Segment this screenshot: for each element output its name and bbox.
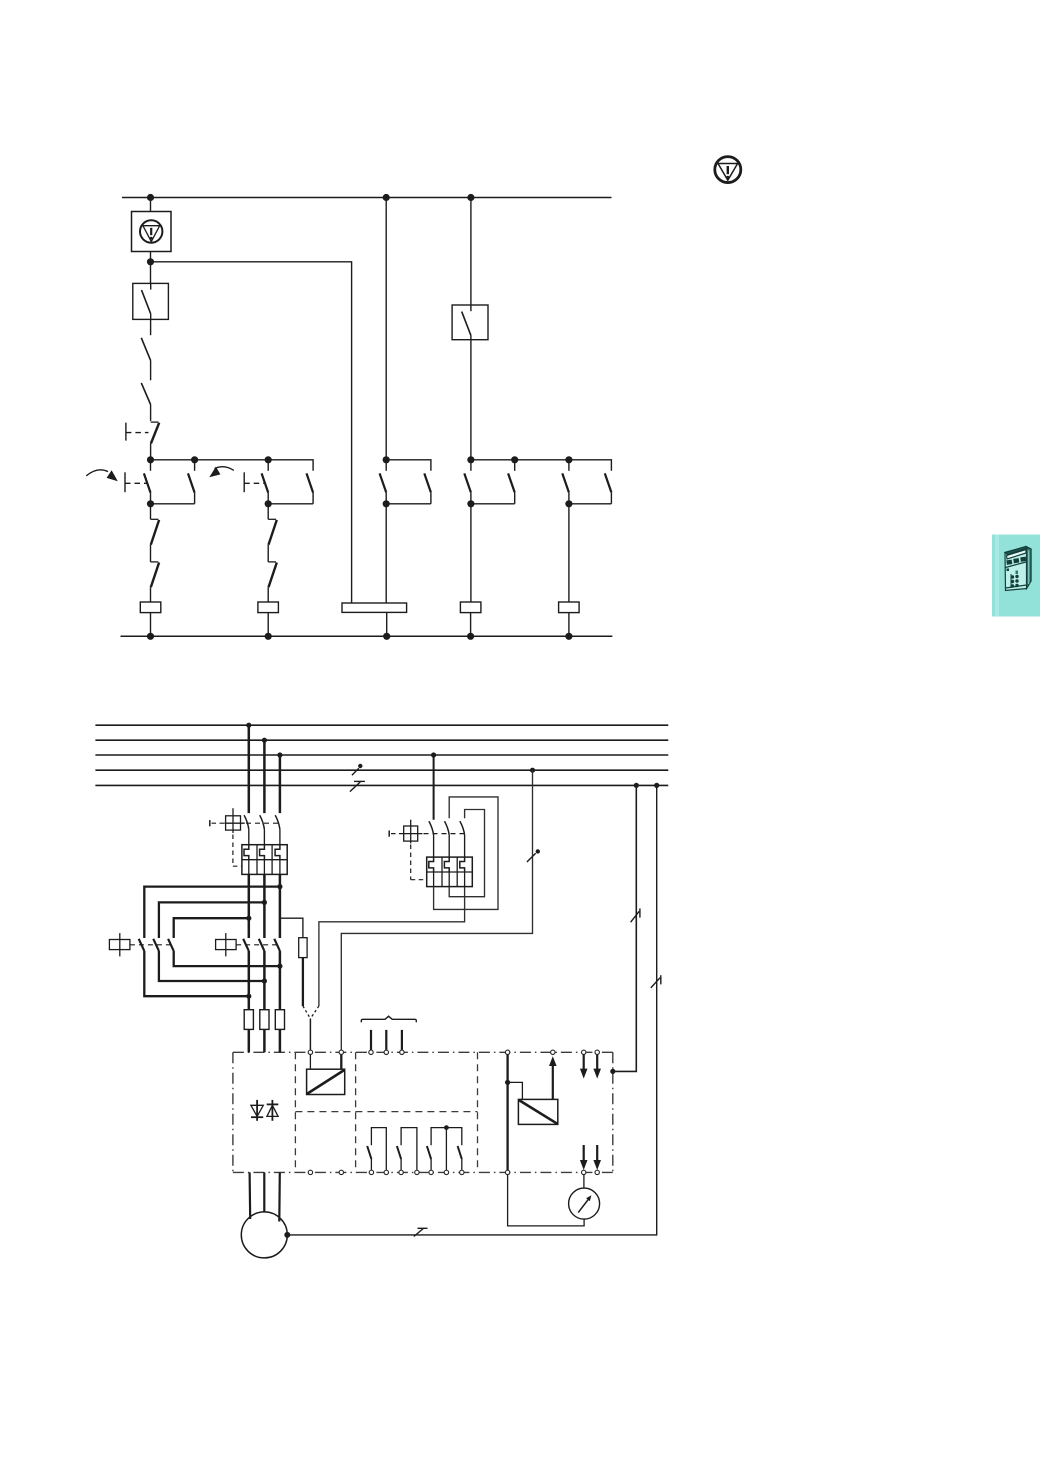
- bypass contactor blade: [139, 939, 145, 951]
- breaker Q2 contact blade: [429, 821, 434, 835]
- breaker Q1 contact blade: [244, 815, 249, 829]
- stub: [568, 460, 570, 471]
- breaker Q1 pole drops: [249, 725, 280, 813]
- control supply converter box: [307, 1069, 345, 1094]
- wire: [263, 1029, 266, 1052]
- node: [246, 916, 251, 921]
- node: [147, 633, 154, 640]
- busbar L1: [95, 724, 668, 726]
- node: [262, 738, 267, 743]
- node: [383, 633, 390, 640]
- analog converter box: [518, 1099, 557, 1124]
- NO contact 5a: [562, 473, 569, 492]
- wire: [267, 493, 269, 504]
- NC interlock contact 2b: [268, 562, 277, 587]
- node: [467, 633, 474, 640]
- wire: [448, 835, 450, 857]
- NO contact 5b: [605, 473, 612, 492]
- series loop pole2-pole3: [449, 810, 484, 897]
- breaker Q2 drop: [433, 755, 435, 820]
- node: [383, 500, 390, 507]
- wire: control feed B: [341, 770, 532, 1050]
- wire through lower cell: [433, 872, 435, 887]
- actuator bar: [125, 423, 127, 441]
- wire: bottom supply rail: [121, 635, 613, 637]
- node: [277, 884, 282, 889]
- breaker Q1 linkage (dashed): [246, 822, 280, 824]
- wire: [386, 612, 388, 636]
- node: [265, 500, 272, 507]
- terminal: [505, 1050, 509, 1054]
- stub: [385, 460, 387, 471]
- contactor coil KM1: [140, 602, 161, 613]
- output arrow: [593, 1145, 601, 1170]
- node: [565, 633, 572, 640]
- thermal overload element: [429, 857, 434, 872]
- wire: [150, 360, 152, 380]
- wire: [194, 493, 196, 504]
- wire: [470, 340, 472, 460]
- bypass contactor operator box: [109, 933, 129, 956]
- wire: [470, 613, 472, 637]
- power fuse: [244, 1010, 253, 1030]
- node: [565, 500, 572, 507]
- terminal: [460, 1170, 464, 1174]
- node: [265, 633, 272, 640]
- wire: [248, 829, 250, 844]
- wire: [267, 504, 269, 520]
- brace over logic inputs: [361, 1016, 416, 1022]
- link marker on feed B: [527, 849, 540, 862]
- emergency stop symbol (standalone): [715, 157, 741, 183]
- terminal: [369, 1170, 373, 1174]
- logic input stub: [385, 1030, 387, 1050]
- wire: [569, 503, 612, 505]
- analog output arrow: [549, 1056, 557, 1099]
- wide relay coil: [342, 603, 407, 612]
- series loop pole1-pole2: [434, 797, 498, 910]
- node: [277, 964, 282, 969]
- terminal: [384, 1170, 388, 1174]
- wire: [470, 504, 472, 602]
- node: [246, 723, 251, 728]
- alternative link (dotted): [310, 1006, 319, 1019]
- busbar L5: [95, 784, 668, 786]
- terminal: [399, 1170, 403, 1174]
- node: [246, 994, 251, 999]
- breaker Q2 contact blade: [445, 821, 450, 835]
- emergency stop device (boxed mushroom symbol): [132, 212, 172, 252]
- stub: [267, 460, 269, 471]
- breaker Q2 trip linkage (dashed): [410, 845, 412, 880]
- wire: [386, 460, 431, 471]
- loop wire: pole B top to L2 output: [159, 902, 265, 938]
- wire: [568, 504, 570, 602]
- terminal: [339, 1050, 343, 1054]
- breaker Q1 contact blade: [275, 815, 280, 829]
- node: [505, 1080, 510, 1085]
- wire: [312, 493, 314, 504]
- node: [565, 456, 572, 463]
- NO contact 4a: [464, 473, 471, 492]
- wire: [279, 1029, 282, 1052]
- wire through lower cell: [279, 860, 281, 875]
- breaker Q2 manual operator: [389, 820, 422, 844]
- input arrow: [593, 1055, 601, 1079]
- turn arrow 1: [86, 470, 108, 476]
- wire: [150, 198, 152, 212]
- motor return wire to L5: [287, 785, 656, 1235]
- breaker Q1 outputs: [249, 874, 280, 1009]
- dashed actuator link 2: [244, 482, 264, 484]
- loop wire: pole A top to L3 output: [144, 887, 280, 938]
- node: [634, 783, 639, 788]
- wire to control fuse: [280, 918, 303, 938]
- alternative link (dotted): [303, 1006, 311, 1019]
- node: [265, 456, 272, 463]
- wire to control terminal: [309, 1019, 311, 1050]
- thermal overload element: [244, 845, 249, 860]
- contactor coil KM2: [258, 602, 279, 613]
- breaker Q1 thermal block: [242, 845, 287, 875]
- wire: [385, 198, 387, 460]
- loop wire: pole B bottom: [159, 951, 265, 981]
- terminal: [308, 1170, 312, 1174]
- soft starter enclosure (chain line): [233, 1052, 613, 1172]
- wire: [279, 829, 281, 844]
- NO contact 3b: [424, 473, 431, 492]
- internal partition 2 (dashed): [355, 1052, 357, 1172]
- terminal: [339, 1170, 343, 1174]
- node on rail at emergency stop branch: [147, 194, 154, 201]
- pushbutton NO contact 2: [262, 473, 269, 492]
- busbar L2: [95, 739, 668, 741]
- link marker on motor wire: [414, 1228, 428, 1236]
- analog meter: [569, 1188, 600, 1219]
- node: [262, 978, 267, 983]
- dashed actuator link: [126, 432, 149, 434]
- terminal: [400, 1050, 404, 1054]
- breaker Q2 thermal block: [427, 857, 473, 887]
- wire: [464, 835, 466, 857]
- dashed actuator link 1: [125, 482, 147, 484]
- node on rail branch 3: [383, 194, 390, 201]
- relay output R2: [397, 1128, 417, 1170]
- relay coil KM5: [559, 602, 580, 613]
- wire: [470, 492, 472, 503]
- wire: right group rail: [471, 460, 612, 471]
- wire: [150, 444, 152, 460]
- output arrow: [580, 1145, 588, 1170]
- wire: [267, 587, 269, 602]
- wire: [309, 1055, 311, 1070]
- relay output R3 (changeover): [427, 1125, 462, 1170]
- wire: pair bottom link: [268, 503, 313, 505]
- wire: [267, 545, 269, 562]
- teal sidebar tab: [992, 535, 1040, 617]
- NO contact 3a: [380, 473, 387, 492]
- stub: [150, 460, 152, 471]
- loop wire: pole C bottom: [174, 951, 280, 966]
- control fuse: [299, 938, 307, 958]
- pushbutton actuator bar 1: [124, 472, 126, 492]
- NO contact (aux) 2: [141, 383, 150, 405]
- line contactor blade: [243, 939, 249, 951]
- breaker Q1 contact blade: [260, 815, 265, 829]
- busbar L3: [95, 754, 668, 756]
- wire: [433, 835, 435, 857]
- input arrow: [580, 1055, 588, 1079]
- wire: pair top rail: [151, 460, 314, 471]
- thermal overload element: [275, 845, 280, 860]
- wire below fuse: [302, 958, 304, 1006]
- loop wire: pole C top to L1 output: [174, 918, 249, 938]
- line contactor blade: [274, 939, 280, 951]
- wire: [267, 613, 269, 637]
- terminal: [582, 1170, 586, 1174]
- line contactor blade: [259, 939, 265, 951]
- wire: [583, 1175, 585, 1188]
- wire: [610, 492, 612, 503]
- pushbutton NO contact 1: [144, 473, 151, 492]
- node on motor: [284, 1232, 290, 1238]
- line contactor linkage (dashed): [236, 944, 280, 946]
- pushbutton actuator bar 2: [243, 472, 245, 492]
- terminal: [429, 1170, 433, 1174]
- internal partition 3 (dashed): [477, 1052, 479, 1172]
- breaker Q2 contact blade: [460, 821, 465, 835]
- line contactor operator box: [216, 933, 237, 956]
- breaker Q2 linkage (dashed): [424, 833, 465, 835]
- NC interlock contact 1b: [151, 562, 160, 587]
- NC interlock contact 1a: [151, 519, 160, 544]
- link marker on L5: [350, 781, 365, 791]
- thyristor pair: [251, 1100, 278, 1121]
- soft starter product icon: [1005, 547, 1031, 591]
- node: branch to contactor line: [147, 258, 154, 265]
- NC interlock contact 2a: [268, 519, 277, 544]
- node: [431, 752, 436, 757]
- logic input stub: [370, 1030, 372, 1050]
- power fuse: [275, 1010, 284, 1030]
- wire: branch right then down to wide coil: [151, 262, 352, 603]
- node: [191, 456, 198, 463]
- wire from L5: [613, 785, 637, 1071]
- wire: [150, 319, 152, 335]
- node: [511, 456, 518, 463]
- terminal: [444, 1170, 448, 1174]
- stub: [194, 460, 196, 471]
- thermal overload element: [444, 857, 449, 872]
- node: [147, 456, 154, 463]
- wire: [150, 405, 152, 421]
- node on enclosure edge: [610, 1069, 615, 1074]
- stub: [514, 460, 516, 471]
- breaker Q1 manual operator: [210, 808, 245, 833]
- node: [147, 500, 154, 507]
- link marker on L5 riser: [651, 975, 661, 988]
- relay output R1: [367, 1128, 386, 1170]
- terminal: [369, 1050, 373, 1054]
- wire: top supply rail: [122, 197, 612, 199]
- node on rail branch 4: [467, 194, 474, 201]
- turn arrow 2: [215, 467, 234, 471]
- wire: [385, 492, 387, 503]
- node: [467, 500, 474, 507]
- power fuse: [260, 1010, 269, 1030]
- wire through lower cell: [448, 872, 450, 887]
- wire: [386, 503, 431, 505]
- terminal: [308, 1050, 312, 1054]
- wire: [385, 504, 387, 603]
- terminal: [384, 1050, 388, 1054]
- breaker Q1 trip linkage (dashed): [232, 835, 234, 867]
- boxed control switch 2: [452, 305, 488, 340]
- relay coil KM4: [460, 602, 481, 613]
- meter return loop: [508, 1175, 584, 1226]
- boxed control switch: [133, 283, 169, 319]
- wire: [150, 504, 152, 520]
- wire: [471, 503, 515, 505]
- wire through lower cell: [248, 860, 250, 875]
- thermal overload element: [260, 845, 265, 860]
- tap marker on L4: [352, 764, 363, 776]
- terminal: [595, 1170, 599, 1174]
- bypass contactor blade: [153, 939, 159, 951]
- bypass contactor blade: [168, 939, 174, 951]
- motor: [241, 1212, 287, 1258]
- internal supply rail: [506, 1055, 508, 1170]
- wire: [568, 492, 570, 503]
- thermal overload element: [460, 857, 465, 872]
- wire: [248, 1029, 251, 1052]
- wire through lower cell: [464, 872, 466, 887]
- terminal: [551, 1050, 555, 1054]
- node: [383, 456, 390, 463]
- NO contact 4b: [508, 473, 515, 492]
- node: [277, 752, 282, 757]
- wire: [150, 587, 152, 602]
- node: [530, 768, 535, 773]
- logic input stub: [401, 1030, 403, 1050]
- terminal: [582, 1050, 586, 1054]
- busbar L4: [95, 769, 668, 771]
- bypass contactor linkage (dashed): [130, 944, 174, 946]
- wire: [263, 829, 265, 844]
- link marker: [631, 908, 640, 922]
- wire: [430, 492, 432, 503]
- wire: [508, 1082, 523, 1099]
- terminal: [505, 1170, 509, 1174]
- aux NO contact 1: [188, 473, 195, 492]
- wire: control feed A: [319, 887, 465, 1006]
- wire: [340, 1055, 342, 1070]
- starter output wires: [250, 1172, 280, 1221]
- loop wire: pole A bottom: [144, 951, 249, 996]
- aux NO contact 2: [307, 473, 314, 492]
- internal divider (dashed): [295, 1111, 477, 1113]
- wire through lower cell: [263, 860, 265, 875]
- node: [654, 783, 659, 788]
- wire: [514, 492, 516, 503]
- NC emergency stop contact: [151, 422, 160, 443]
- node: [467, 456, 474, 463]
- terminal: [415, 1170, 419, 1174]
- wire: [150, 545, 152, 562]
- wire: [150, 493, 152, 504]
- wire: pair bottom link: [151, 503, 195, 505]
- node: [262, 900, 267, 905]
- wire: [150, 252, 152, 284]
- terminal: [595, 1050, 599, 1054]
- internal partition 1 (dashed): [294, 1052, 296, 1172]
- wire: [470, 198, 472, 306]
- NO contact (aux) 1: [141, 338, 150, 361]
- stub: [470, 460, 472, 471]
- wire: [150, 613, 152, 637]
- wire: [568, 613, 570, 637]
